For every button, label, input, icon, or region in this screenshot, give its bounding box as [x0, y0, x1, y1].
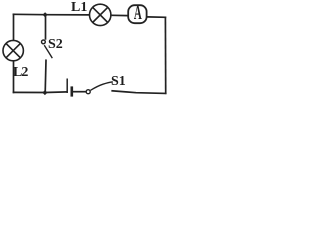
battery short thick plate — [71, 86, 74, 96]
wire right border — [164, 17, 166, 93]
node junction bottom — [42, 90, 47, 95]
wire S2 upper — [45, 15, 47, 39]
label L1 — [71, 2, 87, 14]
label L2 — [13, 67, 27, 79]
lamp L1 — [90, 4, 111, 25]
battery long plate — [66, 79, 68, 94]
wire ammeter to top-right corner — [147, 16, 165, 18]
label S1 — [111, 76, 126, 88]
wire bottom-right segment — [112, 91, 166, 94]
label S2 — [48, 39, 63, 51]
wire battery to S1 — [73, 91, 86, 93]
label A (ammeter) — [134, 5, 142, 23]
wire bottom-left segment — [14, 91, 67, 94]
lamp L2 — [3, 40, 23, 60]
wire S2 lower terminal — [44, 60, 47, 92]
wire left border upper — [13, 14, 15, 40]
switch S1 — [86, 82, 113, 94]
ammeter U1 — [128, 5, 146, 23]
node junction top — [43, 12, 48, 17]
wire L1 to ammeter — [112, 14, 127, 16]
wire top-left segment — [14, 13, 90, 16]
wire left border lower — [13, 61, 15, 92]
switch S2 — [42, 40, 53, 58]
